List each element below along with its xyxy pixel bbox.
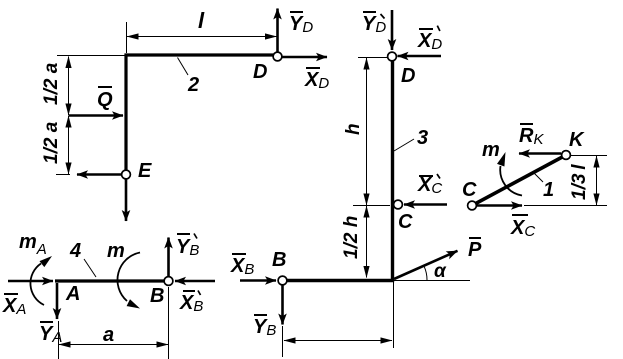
force Y'D down onto D <box>391 10 394 50</box>
force YD up at D <box>276 9 279 53</box>
svg-text:1: 1 <box>543 179 554 201</box>
pin B of member 4 <box>164 277 173 286</box>
label A <box>65 283 80 305</box>
svg-text:1/3 l: 1/3 l <box>569 164 590 200</box>
svg-text:P: P <box>468 239 482 261</box>
wire: member 1 bar C-K <box>472 155 566 206</box>
force X'D left onto D <box>398 55 442 58</box>
label 4 with leader <box>69 240 96 277</box>
pin C of member 3 <box>394 200 403 209</box>
svg-text:C: C <box>398 211 413 233</box>
dimension l <box>127 8 277 53</box>
force X'B left at B <box>175 280 215 283</box>
svg-text:1/2 a: 1/2 a <box>41 121 62 164</box>
angle alpha arc <box>424 266 427 280</box>
force XA right onto A <box>8 280 53 283</box>
node line: horizontal reference at corner <box>394 280 470 282</box>
label YD <box>289 12 313 36</box>
pin D of member 3 <box>388 52 397 61</box>
pin B of member 3 <box>278 276 287 285</box>
label E <box>138 160 152 182</box>
svg-text:C: C <box>462 179 477 201</box>
force YB down <box>281 285 284 325</box>
label C <box>398 211 413 233</box>
svg-text:A: A <box>65 283 80 305</box>
wire: member 4 bar <box>55 279 168 282</box>
dimension 1/2a lower <box>41 116 70 175</box>
label D <box>401 65 415 87</box>
dimension bottom span <box>283 326 393 357</box>
label K <box>569 129 585 151</box>
label Y'D <box>362 12 386 36</box>
label alpha <box>434 261 447 282</box>
wire: member 3 L-bar <box>287 57 393 281</box>
label 1 with leader <box>533 172 554 201</box>
label Q <box>97 87 113 111</box>
label P <box>468 238 482 261</box>
svg-text:1/2 h: 1/2 h <box>341 216 362 259</box>
label RK <box>519 124 544 148</box>
label X'C <box>417 174 442 197</box>
svg-text:m: m <box>107 240 125 262</box>
force at E left <box>77 173 122 176</box>
pin D of member 2 <box>273 52 282 61</box>
moment m arc on member 1 <box>497 152 522 196</box>
pin C of member 1 <box>468 201 477 210</box>
label XB <box>230 254 254 278</box>
label X'B <box>179 291 203 316</box>
svg-text:B: B <box>150 285 164 307</box>
svg-text:h: h <box>343 123 364 135</box>
svg-text:α: α <box>434 261 447 282</box>
force YA down at A <box>56 283 59 319</box>
label m <box>107 240 125 262</box>
label D <box>253 61 267 83</box>
force XB right onto B <box>240 279 276 282</box>
force XD right at D <box>282 56 327 59</box>
wire: extension below corner <box>393 282 395 348</box>
dimension 1/2a upper <box>41 56 126 116</box>
label YA <box>39 322 62 346</box>
label Y'B <box>176 234 199 260</box>
pin K <box>562 151 571 160</box>
label XD <box>304 68 329 92</box>
label B <box>150 285 164 307</box>
svg-text:3: 3 <box>417 127 428 149</box>
label m <box>482 139 500 161</box>
label B <box>272 249 286 271</box>
svg-text:1/2 a: 1/2 a <box>41 62 62 105</box>
svg-text:l: l <box>198 8 205 33</box>
label XA <box>2 294 26 318</box>
label YB <box>253 315 276 339</box>
moment m arc near B <box>117 253 140 309</box>
force RK left at K <box>519 152 561 155</box>
force Q arrow <box>69 114 124 117</box>
label 3 with leader <box>394 127 428 151</box>
force X'C left onto C <box>404 203 447 206</box>
svg-text:Q: Q <box>97 89 113 111</box>
label 2 with leader <box>178 58 200 97</box>
svg-text:a: a <box>103 324 114 346</box>
svg-text:m: m <box>482 139 500 161</box>
svg-text:E: E <box>138 160 152 182</box>
dimension 1/3 l <box>524 156 607 206</box>
svg-text:K: K <box>569 129 585 151</box>
pin E <box>122 170 131 179</box>
force Y'B up at B <box>167 238 170 277</box>
svg-text:D: D <box>253 61 267 83</box>
svg-text:4: 4 <box>69 240 81 262</box>
force at E down <box>125 179 128 221</box>
label XC <box>510 215 535 240</box>
dimension 1/2h <box>341 206 367 278</box>
label C <box>462 179 477 201</box>
svg-text:2: 2 <box>187 74 199 96</box>
force XC right at C <box>477 204 522 207</box>
dimension h <box>343 58 390 206</box>
force P inclined <box>394 251 458 279</box>
label X'D <box>417 26 442 53</box>
label mA <box>19 231 47 258</box>
wire: member 2 L-bar <box>126 55 274 171</box>
svg-text:D: D <box>401 65 415 87</box>
moment mA arc <box>30 256 52 305</box>
svg-text:B: B <box>272 249 286 271</box>
dimension a <box>59 287 169 359</box>
